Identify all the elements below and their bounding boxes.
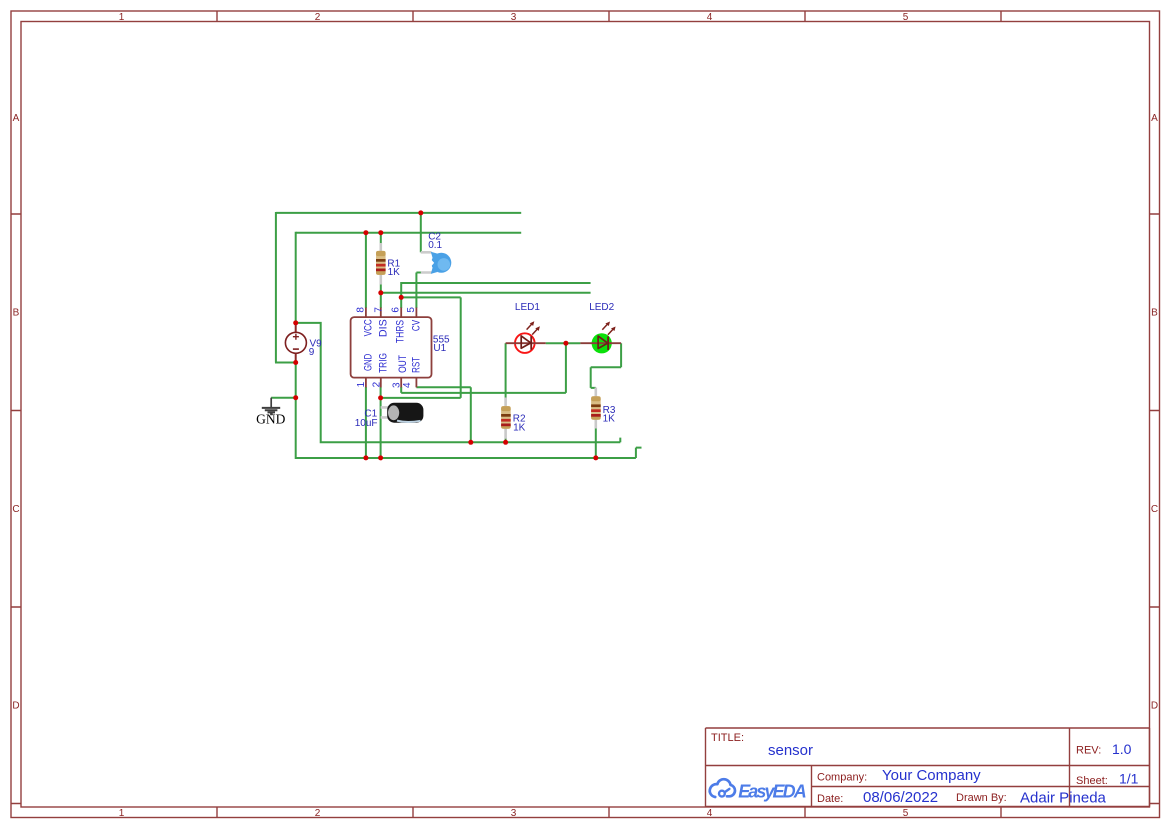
svg-text:CV: CV [411, 319, 423, 331]
svg-text:TRIG: TRIG [377, 353, 389, 373]
wire R1 bottom stub to pin 7 [380, 283, 382, 308]
wire DIS horizontal W2 [381, 292, 591, 294]
pin number 2 [371, 381, 382, 387]
svg-text:Sheet:: Sheet: [1076, 775, 1108, 787]
svg-text:Adair Pineda: Adair Pineda [1020, 790, 1107, 807]
svg-text:5: 5 [903, 12, 909, 23]
svg-text:D: D [1151, 701, 1158, 712]
pin label TRIG [377, 353, 389, 373]
svg-text:2: 2 [315, 12, 321, 23]
wire LED2 cathode to R3 [591, 343, 621, 390]
pin number 7 [373, 307, 384, 313]
svg-text:3: 3 [511, 12, 517, 23]
svg-text:1: 1 [119, 808, 125, 819]
resistor R3 [591, 388, 601, 429]
svg-text:4: 4 [707, 808, 713, 819]
svg-text:sensor: sensor [768, 742, 813, 759]
pin label RST [411, 357, 423, 373]
svg-text:9: 9 [309, 347, 315, 358]
wire THRS vertical pin 6 [400, 282, 402, 308]
label LED2 [589, 302, 614, 313]
capacitor C1 electrolytic [381, 403, 424, 423]
junction node R3 / rail B [593, 455, 598, 460]
junction node pin1 / rail B [363, 455, 368, 460]
label R2 [513, 413, 526, 424]
resistor R1 [376, 243, 386, 285]
wire THRS horizontal W1 [401, 282, 590, 284]
junction node V9 minus [293, 360, 298, 365]
pin number 6 [391, 307, 402, 313]
pin label THRS [395, 320, 407, 343]
svg-text:1K: 1K [603, 413, 616, 424]
wire GND branch [271, 397, 296, 399]
svg-text:10uF: 10uF [355, 418, 378, 429]
junction node top rail / C2 [418, 210, 423, 215]
junction node LED link [563, 341, 568, 346]
value 0.1 [428, 240, 442, 251]
value 1K R1 [388, 267, 401, 278]
pin number 8 [355, 307, 366, 313]
pin label DIS [377, 319, 389, 337]
svg-text:B: B [1151, 308, 1158, 319]
wire pin 2 TRIG vertical to bottom rail [380, 387, 382, 458]
wire C2 top drop [420, 213, 422, 252]
svg-text:RST: RST [411, 357, 423, 373]
value 555 [433, 335, 450, 346]
label V9 [310, 338, 323, 349]
wire R3 bottom stub [595, 427, 597, 458]
wire V9 plus to rail A [296, 322, 621, 442]
svg-text:1/1: 1/1 [1119, 771, 1139, 787]
svg-text:B: B [13, 308, 20, 319]
svg-text:A: A [13, 113, 20, 124]
LED1 red [506, 321, 546, 353]
frame row letters left [12, 113, 19, 712]
svg-text:1: 1 [119, 12, 125, 23]
svg-text:1K: 1K [388, 267, 401, 278]
svg-text:4: 4 [707, 12, 713, 23]
svg-text:REV:: REV: [1076, 744, 1101, 756]
junction node RST / rail A [468, 440, 473, 445]
wire pin 8 vertical [365, 233, 367, 308]
svg-text:LED1: LED1 [515, 302, 540, 313]
svg-text:LED2: LED2 [589, 302, 614, 313]
pin label VCC [363, 319, 375, 336]
junction node R1 / DIS [378, 290, 383, 295]
voltage source V9 [285, 323, 306, 363]
svg-text:GND: GND [363, 354, 375, 371]
svg-text:OUT: OUT [397, 355, 409, 373]
wire top-rail left drop to V9 minus [275, 212, 296, 363]
svg-text:D: D [12, 701, 19, 712]
wire VCC top rail [276, 212, 521, 214]
svg-text:3: 3 [511, 808, 517, 819]
svg-text:U1: U1 [433, 343, 446, 354]
frame column numbers top [119, 12, 909, 23]
svg-text:Company:: Company: [817, 771, 867, 783]
label R3 [603, 405, 616, 416]
pin number 1 [356, 381, 367, 387]
op-amp 555 timer U1 body [351, 308, 432, 388]
wire LED1 anode drop to R2 [505, 343, 507, 398]
EasyEDA logo [710, 779, 807, 801]
svg-text:7: 7 [373, 307, 384, 313]
frame row letters right [1151, 113, 1158, 712]
svg-text:TITLE:: TITLE: [711, 732, 744, 744]
svg-text:C: C [1151, 504, 1158, 515]
label R1 [387, 259, 400, 270]
value 10uF [355, 418, 378, 429]
wire C2 bottom to pin 5 [416, 273, 421, 309]
title block lines [706, 728, 1150, 807]
svg-text:6: 6 [391, 307, 402, 313]
svg-text:Date:: Date: [817, 793, 843, 805]
wire LED1 to LED2 [546, 342, 581, 344]
wire R2 bottom stub [505, 438, 507, 443]
pin number 5 [406, 307, 417, 313]
junction node R2 / rail A [503, 440, 508, 445]
svg-text:4: 4 [402, 382, 413, 388]
junction node rail2 / R1 [378, 230, 383, 235]
svg-text:GND: GND [256, 412, 285, 427]
pin number 3 [391, 382, 402, 388]
svg-text:C: C [12, 504, 19, 515]
title block labels [711, 732, 1108, 805]
svg-text:EasyEDA: EasyEDA [738, 781, 807, 801]
junction node pin2 / rail B [378, 455, 383, 460]
pin label OUT [397, 355, 409, 373]
wire THRS to TRIG link [381, 297, 461, 398]
pin number 4 [402, 382, 413, 388]
resistor R2 [501, 398, 511, 439]
frame column numbers bottom [119, 808, 909, 819]
title block values [768, 741, 1139, 807]
label U1 [433, 343, 446, 354]
svg-text:THRS: THRS [395, 320, 407, 343]
svg-text:A: A [1151, 113, 1158, 124]
value 9 [309, 347, 315, 358]
pin label CV [411, 319, 423, 331]
svg-text:1: 1 [356, 381, 367, 387]
wire pin 3 OUT to LED node [401, 343, 566, 393]
svg-text:1K: 1K [513, 423, 526, 434]
wire V9 plus vertical [295, 232, 297, 323]
junction node rail2 / pin8 [363, 230, 368, 235]
wire R1 top stub [380, 233, 382, 244]
svg-text:5: 5 [903, 808, 909, 819]
svg-text:3: 3 [391, 382, 402, 388]
junction node THRS [399, 295, 404, 300]
svg-text:2: 2 [315, 808, 321, 819]
label C1 [364, 408, 377, 419]
junction node TRIG [378, 395, 383, 400]
pin label GND [363, 354, 375, 371]
wire pin 4 RST to rail A [416, 387, 470, 442]
svg-text:DIS: DIS [377, 319, 389, 337]
junction node V9 plus [293, 320, 298, 325]
LED2 green [580, 322, 621, 354]
capacitor C2 [421, 252, 452, 274]
junction node GND [293, 395, 298, 400]
label LED1 [515, 302, 540, 313]
svg-text:0.1: 0.1 [428, 240, 442, 251]
svg-text:5: 5 [406, 307, 417, 313]
label C2 [428, 232, 441, 243]
svg-text:Your Company: Your Company [882, 767, 981, 784]
svg-text:8: 8 [355, 307, 366, 313]
svg-text:VCC: VCC [363, 319, 375, 336]
ground GND [256, 398, 285, 427]
wire second top rail [296, 232, 521, 234]
wire pin 1 GND vertical [365, 387, 367, 458]
svg-text:08/06/2022: 08/06/2022 [863, 789, 938, 806]
value 1K R2 [513, 423, 526, 434]
value 1K R3 [603, 413, 616, 424]
wire V9 minus down to bottom rail [295, 363, 642, 459]
svg-text:Drawn By:: Drawn By: [956, 792, 1007, 804]
svg-text:2: 2 [371, 381, 382, 387]
svg-text:1.0: 1.0 [1112, 741, 1132, 757]
